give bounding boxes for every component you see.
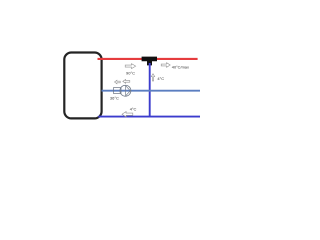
- svg-text:36°C: 36°C: [110, 96, 119, 101]
- mixing tee T1: [142, 57, 157, 66]
- flow arrow left (lower return): [122, 112, 133, 117]
- wire: upper return pipe (light blue): [102, 90, 201, 92]
- flow arrow left small A: [114, 80, 120, 84]
- wire: hot flow pipe (red): [98, 58, 198, 60]
- flow arrow 40C (right): [161, 63, 170, 68]
- flow arrow 90C (right): [125, 64, 136, 69]
- svg-text:4°C: 4°C: [130, 106, 137, 111]
- svg-text:40°C/max: 40°C/max: [172, 65, 189, 70]
- boiler B1: [64, 53, 101, 119]
- svg-text:4°C: 4°C: [157, 76, 164, 81]
- wire: lower return pipe (blue): [98, 116, 200, 118]
- wire: bypass vertical (blue): [149, 63, 151, 117]
- valve V1: [114, 88, 122, 94]
- svg-text:90°C: 90°C: [126, 71, 135, 76]
- pump P1: [120, 85, 131, 96]
- flow arrow left small B: [123, 79, 130, 83]
- flow arrow up (bypass): [151, 74, 154, 81]
